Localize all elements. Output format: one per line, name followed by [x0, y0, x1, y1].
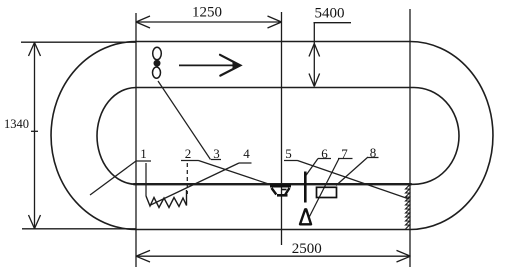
svg-text:1: 1 [140, 146, 147, 161]
leader 6 to bar [306, 159, 319, 177]
leader 1 [90, 161, 136, 195]
extension line right vertical [409, 9, 411, 267]
svg-text:2: 2 [185, 146, 192, 161]
dimension arrow 400 vertical [313, 23, 315, 87]
leader 3 to figure-8 [158, 81, 211, 160]
spring right dashed drop [186, 163, 188, 194]
extension line centre vertical [281, 12, 283, 245]
leader lines [90, 81, 409, 217]
inner bottom boundary (bold) [134, 183, 411, 185]
svg-text:5400: 5400 [315, 6, 345, 22]
inner track oval [97, 88, 459, 185]
dimension line 1250 [136, 21, 282, 23]
leader 400 underline [314, 22, 352, 24]
dimension line 2500 [136, 255, 411, 257]
rectangle device [317, 187, 337, 197]
svg-text:2500: 2500 [292, 241, 322, 257]
extension line bottom-left horizontal [22, 228, 136, 230]
cone device [300, 209, 311, 224]
svg-text:1340: 1340 [4, 117, 29, 131]
leader 5 to finish line [298, 161, 410, 200]
spring left drop [145, 163, 147, 196]
marker figure-8 (pilot symbol) [153, 47, 162, 78]
svg-text:3: 3 [213, 146, 220, 161]
svg-text:4: 4 [243, 146, 250, 161]
leader 7 to cone [310, 159, 340, 217]
extension line left vertical [135, 13, 137, 267]
leader 4 to spring [150, 163, 240, 206]
leader 8 to rectangle [336, 157, 368, 186]
bar device [304, 172, 307, 203]
leader 2 to speaker [199, 161, 271, 185]
svg-text:5: 5 [285, 146, 292, 161]
svg-text:1250: 1250 [192, 5, 222, 21]
outer track oval [51, 42, 493, 230]
speaker device on centre line [270, 186, 291, 196]
spring / zigzag device [146, 190, 187, 208]
direction arrow [179, 55, 241, 76]
extension line top-left horizontal [21, 41, 136, 43]
dimension line 1340 [31, 130, 38, 132]
finish line hatching [406, 185, 410, 229]
